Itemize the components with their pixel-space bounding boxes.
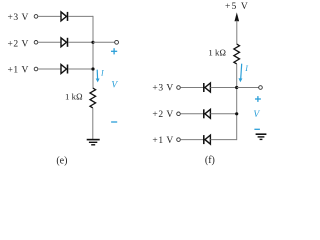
wire f row3 diode to bus	[210, 139, 236, 141]
output terminal circle	[115, 40, 119, 44]
supply arrow up	[235, 12, 240, 44]
svg-text:+2 V: +2 V	[152, 110, 173, 120]
bus vertical wire	[92, 16, 94, 88]
svg-text:+1 V: +1 V	[8, 66, 29, 76]
diode D1 row1	[61, 12, 68, 21]
svg-text:1 kΩ: 1 kΩ	[208, 47, 226, 57]
resistor R1 1 kOhm	[90, 88, 96, 108]
junction dot f row1	[235, 86, 238, 89]
svg-text:V: V	[111, 81, 118, 91]
terminal circle f row2	[177, 112, 181, 116]
junction dot row3	[91, 67, 94, 70]
wire row2 diode to bus	[68, 41, 93, 43]
output terminal circle (f)	[259, 86, 263, 90]
diode D3 row3	[61, 65, 68, 74]
output wire (f)	[237, 87, 259, 89]
svg-text:+2 V: +2 V	[8, 39, 29, 49]
svg-text:V: V	[253, 110, 260, 120]
blue current arrow I	[96, 70, 100, 83]
svg-text:1 kΩ: 1 kΩ	[65, 92, 83, 102]
terminal circle row3	[34, 67, 38, 71]
terminal circle row2	[34, 41, 38, 45]
terminal circle f row3	[177, 138, 181, 142]
wire row3 input	[38, 68, 61, 70]
wire f row1 input	[180, 87, 203, 89]
terminal circle row1	[34, 15, 38, 19]
svg-text:+1 V: +1 V	[152, 136, 173, 146]
wire row1 input	[38, 15, 61, 17]
svg-text:I: I	[244, 64, 248, 73]
wire f row2 input	[180, 113, 203, 115]
svg-text:+5 V: +5 V	[225, 2, 249, 12]
svg-text:+3 V: +3 V	[8, 13, 29, 23]
wire row1 diode to bus	[68, 15, 93, 17]
wire resistor to node	[236, 64, 238, 88]
blue minus (f)	[254, 128, 260, 130]
output wire	[93, 41, 115, 43]
wire row3 diode to bus	[68, 68, 93, 70]
diode D5 f row2	[204, 109, 211, 118]
terminal circle f row1	[177, 86, 181, 90]
svg-text:(f): (f)	[205, 155, 215, 166]
svg-text:(e): (e)	[56, 156, 67, 167]
wire resistor to ground	[92, 108, 94, 139]
wire row2 input	[38, 41, 61, 43]
diode D2 row2	[61, 38, 68, 47]
blue current arrow I (f)	[239, 64, 243, 83]
blue plus (f)	[255, 96, 261, 102]
svg-text:+3 V: +3 V	[152, 83, 173, 93]
diode D6 f row3	[204, 135, 211, 144]
bus vertical wire (f)	[236, 88, 238, 141]
diode D4 f row1	[204, 83, 211, 92]
ground (e)	[87, 140, 100, 145]
ground (f)	[256, 134, 267, 139]
wire f row3 input	[180, 139, 203, 141]
resistor R2 1 kOhm	[234, 44, 240, 64]
wire f row2 diode to bus	[210, 113, 236, 115]
wire f row1 diode to bus	[210, 87, 236, 89]
junction dot f row2	[235, 112, 238, 115]
svg-text:I: I	[100, 68, 104, 77]
blue minus	[111, 121, 117, 123]
blue plus	[111, 48, 117, 54]
junction dot row2	[91, 41, 94, 44]
